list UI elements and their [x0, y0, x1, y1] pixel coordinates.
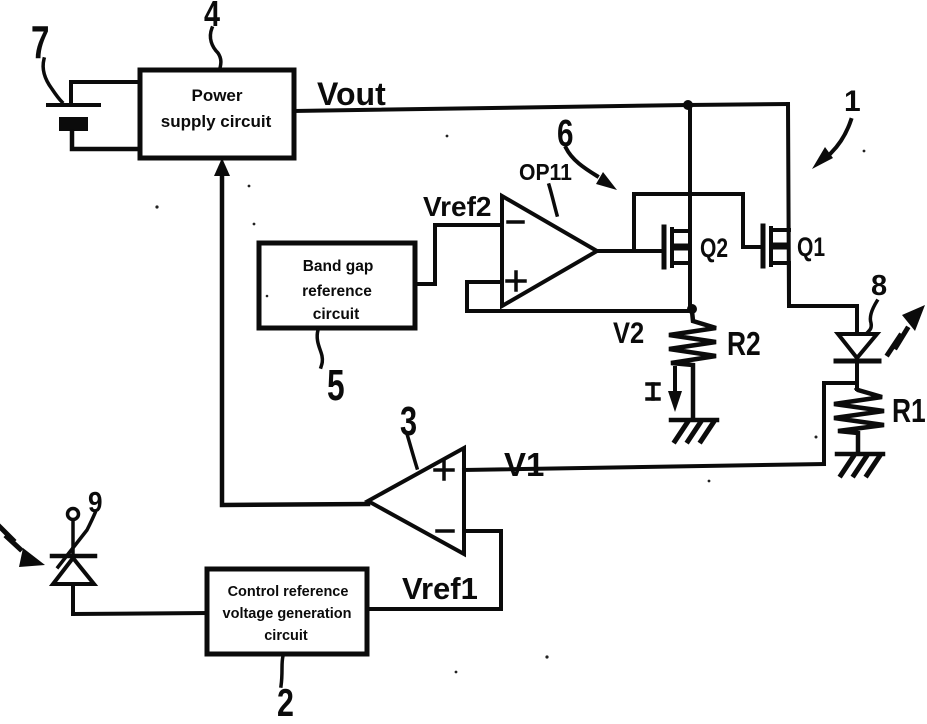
- label 5: [317, 330, 344, 410]
- wire battery top to power supply box: [71, 82, 140, 104]
- svg-text:reference: reference: [302, 283, 372, 300]
- svg-text:7: 7: [31, 18, 49, 68]
- incident light arrow: [0, 527, 45, 567]
- wire gate branch over to Q1 gate: [634, 194, 761, 251]
- transistor Q2: [664, 227, 690, 267]
- wire node LED/R1 tap to V1: [824, 383, 857, 464]
- op-amp 3 error amplifier: [368, 448, 464, 554]
- wire Vout rail: [294, 104, 788, 111]
- wire op-amp plus input feedback to node V2: [467, 282, 692, 311]
- battery 7: [48, 105, 99, 131]
- wire amp3 minus input to Vref1: [369, 531, 501, 609]
- svg-text:Q1: Q1: [797, 233, 825, 263]
- svg-text:OP11: OP11: [519, 159, 572, 185]
- node V2 junction dot: [687, 304, 697, 314]
- resistor R1: [834, 389, 884, 453]
- LED 8: [836, 334, 879, 389]
- svg-text:voltage generation: voltage generation: [223, 606, 352, 622]
- label 7: [31, 18, 62, 102]
- label OP11: [519, 159, 572, 215]
- transistor Q1: [763, 226, 789, 266]
- wire photodiode to control box: [73, 613, 207, 614]
- light emission arrow: [888, 305, 925, 354]
- label 9: [58, 486, 103, 567]
- svg-text:1: 1: [844, 85, 861, 118]
- wire battery bottom to power supply box: [72, 132, 140, 149]
- wire Vref2 band gap output to op-amp minus input: [415, 225, 502, 284]
- svg-text:circuit: circuit: [313, 306, 360, 323]
- ground below R1: [837, 454, 883, 475]
- svg-text:V2: V2: [613, 316, 644, 349]
- label 8: [868, 270, 887, 332]
- svg-text:Vout: Vout: [317, 76, 386, 112]
- wire op-amp output to Q2 gate: [597, 249, 662, 253]
- block power supply circuit 4: [140, 70, 294, 158]
- wire amp3 output to power supply feedback: [214, 158, 368, 505]
- svg-text:Vref1: Vref1: [402, 571, 478, 606]
- block control reference voltage generation circuit 2: [207, 569, 367, 654]
- svg-text:Band gap: Band gap: [303, 258, 374, 275]
- svg-text:8: 8: [871, 270, 887, 302]
- wire Q2 drain from Vout rail: [688, 105, 692, 263]
- photodiode 9: [52, 509, 95, 615]
- svg-text:Control reference: Control reference: [228, 584, 349, 600]
- label 3: [400, 398, 417, 468]
- svg-text:circuit: circuit: [264, 628, 308, 644]
- svg-text:Vref2: Vref2: [423, 191, 492, 222]
- label 4: [204, 0, 221, 68]
- op-amp OP11: [502, 196, 597, 306]
- wire Q1 drain from Vout rail: [788, 104, 789, 306]
- svg-text:V1: V1: [504, 446, 544, 483]
- resistor R2: [669, 311, 716, 419]
- scan speckles: [155, 135, 865, 674]
- block band gap reference circuit 5: [259, 243, 415, 328]
- svg-text:supply circuit: supply circuit: [161, 112, 272, 131]
- svg-text:5: 5: [327, 361, 345, 410]
- label 1: [812, 85, 861, 169]
- svg-text:R1: R1: [892, 393, 926, 429]
- svg-text:2: 2: [277, 681, 294, 724]
- svg-text:R2: R2: [727, 326, 761, 362]
- label I: [647, 384, 659, 399]
- ground below R2: [671, 420, 717, 441]
- label 6: [557, 113, 617, 190]
- current arrow I: [668, 368, 682, 412]
- svg-text:Q2: Q2: [700, 234, 728, 264]
- wire Q1 source to LED anode: [789, 263, 857, 334]
- wire Q2 source down to node V2: [688, 263, 692, 311]
- label 2: [277, 656, 294, 724]
- node junction Vout rail / Q2 drain: [683, 100, 693, 110]
- wire V1 node to amp3 plus input: [464, 464, 824, 470]
- svg-text:Power: Power: [191, 86, 242, 105]
